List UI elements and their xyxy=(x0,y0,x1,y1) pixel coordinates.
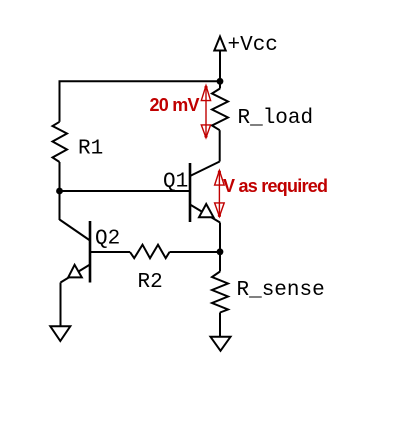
red arrow V across Q1 xyxy=(215,170,225,217)
transistor Q1 xyxy=(190,162,220,223)
wire Q2 base xyxy=(90,251,130,253)
svg-text:R_load: R_load xyxy=(238,107,314,130)
wire Q1 base xyxy=(60,190,191,192)
resistor R2 xyxy=(130,245,170,259)
wire R_load to Q1 collector xyxy=(219,130,221,161)
wire Vcc node to R_load xyxy=(219,81,221,88)
wire left vertical upper xyxy=(59,81,61,122)
ground under R_sense xyxy=(211,337,231,351)
svg-text:20 mV: 20 mV xyxy=(150,95,200,115)
svg-text:R1: R1 xyxy=(78,138,103,161)
svg-text:R2: R2 xyxy=(138,271,163,294)
wire left vertical lower xyxy=(59,162,61,220)
resistor R1 xyxy=(53,122,68,162)
junction node R2/Q1 emitter/R_sense xyxy=(217,248,224,255)
wire Q1 emitter to sense node xyxy=(219,223,221,252)
wire Q2 emitter to ground xyxy=(60,283,62,327)
wire top horizontal xyxy=(59,80,221,82)
svg-text:Q2: Q2 xyxy=(95,228,120,251)
svg-text:R_sense: R_sense xyxy=(237,279,325,302)
junction node R1/Q1 base xyxy=(56,188,63,195)
resistor R_load xyxy=(212,89,228,131)
wire R2 to sense node xyxy=(170,251,221,253)
power symbol +Vcc xyxy=(214,37,225,82)
junction node Vcc/R_load xyxy=(217,78,224,85)
svg-text:Q1: Q1 xyxy=(163,171,188,194)
svg-text:V as required: V as required xyxy=(223,176,327,196)
red arrow 20 mV across R_load xyxy=(201,86,210,138)
svg-text:+Vcc: +Vcc xyxy=(228,34,278,57)
wire sense node to R_sense xyxy=(219,252,221,272)
resistor R_sense xyxy=(212,272,228,313)
ground under Q2 xyxy=(50,326,70,341)
wire R_sense to ground xyxy=(219,313,221,337)
transistor Q2 xyxy=(60,220,91,283)
